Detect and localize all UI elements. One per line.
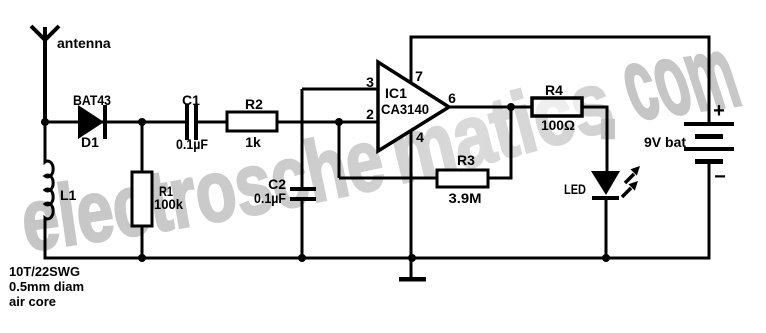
wire: C1 to R2: [198, 121, 227, 124]
svg-text:D1: D1: [81, 134, 99, 150]
svg-text:3: 3: [366, 74, 374, 90]
node: D1 output junction: [138, 118, 146, 126]
wire: feedback vertical: [338, 122, 341, 178]
svg-text:CA3140: CA3140: [381, 101, 429, 117]
svg-text:100k: 100k: [154, 196, 183, 212]
op-amp IC1 CA3140: [378, 62, 449, 151]
resistor R4: [532, 98, 582, 116]
capacitor C2: [290, 187, 316, 201]
svg-text:−: −: [714, 166, 726, 188]
wire: R1 branch top: [141, 122, 144, 172]
antenna: [31, 26, 59, 122]
ground: [399, 277, 426, 282]
svg-text:air core: air core: [9, 294, 56, 309]
node: feedback tap: [335, 118, 343, 126]
svg-text:3.9M: 3.9M: [449, 190, 482, 206]
svg-text:antenna: antenna: [57, 35, 111, 51]
svg-text:9V bat: 9V bat: [644, 134, 686, 150]
svg-text:1k: 1k: [245, 134, 261, 150]
svg-text:6: 6: [448, 90, 456, 106]
svg-text:R2: R2: [245, 96, 263, 112]
node: LED bottom: [602, 254, 610, 262]
battery 9V: [684, 122, 734, 164]
LED arrows: [622, 166, 640, 197]
diode D1: [78, 105, 107, 139]
wire: R4 to LED corner: [582, 107, 607, 171]
svg-text:10T/22SWG: 10T/22SWG: [9, 264, 80, 279]
wire: LED to bottom rail: [605, 199, 608, 258]
wire: pin3 horizontal: [302, 88, 378, 91]
svg-text:2: 2: [366, 106, 374, 122]
LED: [591, 171, 620, 200]
wire: battery top lead: [708, 36, 711, 123]
node: ground junction: [408, 254, 416, 262]
node: C2 bottom: [298, 254, 306, 262]
inductor L1: [45, 122, 53, 259]
svg-text:L1: L1: [60, 187, 77, 203]
wire: pin3 branch vertical upper: [301, 89, 304, 189]
node: R1 bottom: [138, 254, 146, 262]
svg-text:7: 7: [415, 68, 423, 84]
resistor R3: [437, 170, 488, 187]
svg-text:100Ω: 100Ω: [541, 117, 575, 133]
wire: pin7 vertical: [410, 37, 413, 83]
wire: battery bottom lead: [708, 164, 711, 260]
resistor R1: [132, 172, 152, 226]
svg-text:IC1: IC1: [385, 85, 407, 101]
wire: top supply rail: [410, 36, 711, 39]
capacitor C1: [185, 104, 198, 140]
svg-text:C1: C1: [182, 92, 200, 108]
svg-text:R4: R4: [545, 82, 563, 98]
wire: feedback horizontal: [339, 177, 437, 180]
wire: pin4 to ground: [410, 131, 413, 279]
svg-text:0.5mm diam: 0.5mm diam: [9, 279, 84, 294]
wire: output to R4: [449, 106, 533, 109]
svg-text:0.1µF: 0.1µF: [176, 136, 208, 152]
wire: main rail antenna to C1: [45, 121, 187, 124]
svg-text:LED: LED: [564, 181, 586, 197]
wire: R1 branch bottom: [141, 226, 144, 258]
wire: R2 to op-amp pin2: [277, 121, 378, 124]
svg-text:+: +: [713, 100, 725, 122]
node: antenna junction: [41, 118, 49, 126]
wire: pin3 branch vertical lower: [301, 199, 304, 258]
wire: bottom rail: [44, 257, 711, 260]
svg-text:0.1µF: 0.1µF: [254, 190, 286, 206]
node: output junction: [507, 103, 515, 111]
svg-text:BAT43: BAT43: [73, 92, 111, 108]
svg-text:4: 4: [416, 129, 424, 145]
resistor R2: [227, 112, 277, 131]
svg-text:R3: R3: [457, 152, 475, 168]
wire: R3 to output node: [488, 107, 511, 178]
